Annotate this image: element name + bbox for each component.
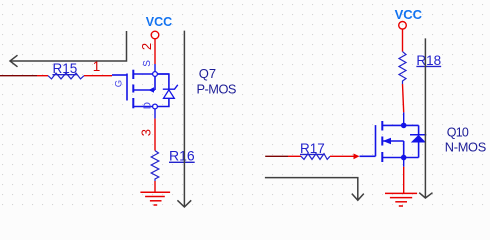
Q7 drain stub [133,106,157,108]
Q10 bulk arrow [383,138,391,144]
Q10 source pin lead [403,158,405,167]
wire R17 to gate red [330,155,354,157]
svg-text:3: 3 [139,129,154,136]
svg-text:N-MOS: N-MOS [445,140,486,155]
Q7 drain pin lead [154,109,156,119]
wire drain to R16 red [154,119,156,151]
svg-text:VCC: VCC [395,7,423,22]
wire gate Q7 red [84,75,112,77]
svg-text:D: D [143,102,154,109]
label R18 [416,54,442,68]
wire source to ground red [403,167,405,194]
svg-text:R18: R18 [416,53,441,68]
resistor R17 [301,154,330,160]
svg-text:VCC: VCC [146,15,172,29]
svg-text:P-MOS: P-MOS [197,82,236,97]
wire R16 to ground red [154,181,156,192]
Q10 drain pin lead [403,112,405,125]
Q7 source pin lead [154,64,156,72]
Q7 gate lead [112,74,127,76]
wire black arrow line mid [177,31,191,207]
Q7 body diode cathode bar [163,85,178,89]
power VCC circle left [151,31,159,39]
Q10 bulk vertical [403,141,405,158]
resistor R18 [399,52,406,84]
svg-text:R15: R15 [53,61,78,76]
wire R15 input red segment [37,75,48,77]
wire black arrow line left [10,31,127,67]
svg-text:G: G [114,80,125,87]
Q10 gate bar [375,125,377,156]
Q10 bulk stub [382,140,403,142]
resistor R16 [151,151,159,181]
Q10 body diode rail bottom [418,143,420,158]
Q10 channel dashes [381,121,383,162]
Q7 source stub [133,73,169,75]
Q10 drain stub [382,124,418,126]
wire black arrow line bottom [265,178,364,201]
svg-text:1: 1 [93,59,101,74]
junction dot top [401,123,407,129]
wire R17 input maroon segment [265,155,288,157]
red arrow on wire [354,154,360,160]
wire VCC to source red [154,39,156,64]
Q7 body diode triangle [164,90,175,99]
resistor R15 [48,73,84,79]
Q10 body diode cathode bar [410,134,426,136]
svg-text:S: S [142,60,153,67]
wire R15 input maroon segment [0,75,37,77]
power VCC circle right [399,22,407,30]
svg-text:R17: R17 [300,141,325,156]
svg-text:2: 2 [139,43,154,50]
wire R17 red segment [288,155,301,157]
Q10 gate lead blue [360,155,376,157]
wire black arrow line right [419,38,432,198]
Q7 bulk stub [133,89,155,91]
Q7 bulk vertical [154,76,156,90]
Q7 channel dashes [132,70,134,109]
Q7 body diode rail [157,74,169,89]
wire R18 to drain red [403,84,404,112]
Q10 body diode rail top [418,125,420,134]
Q7 bulk arrow [149,87,155,92]
wire VCC to R18 red [402,29,404,51]
svg-text:Q7: Q7 [199,66,216,81]
Q7 gate bar [126,74,128,101]
node D circle [153,104,158,109]
junction dot bottom [401,155,407,161]
svg-text:R16: R16 [169,148,195,164]
ground right [385,193,417,206]
node S circle [153,72,158,77]
Q10 source stub [382,157,418,159]
Q10 body diode triangle [411,135,426,143]
svg-text:Q10: Q10 [447,126,469,140]
ground left [140,192,170,205]
